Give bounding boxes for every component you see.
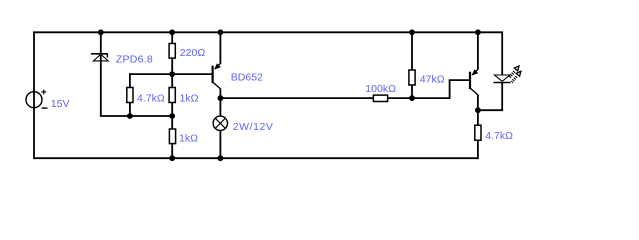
- wire Q1 collector vertical: [219, 89, 221, 116]
- wire 4.7k bottom vertical: [129, 103, 131, 117]
- resistor 4.7k right: [475, 125, 481, 140]
- svg-text:1kΩ: 1kΩ: [180, 93, 199, 105]
- zener diode ZPD6.8: [91, 54, 108, 61]
- wire mid horizontal collector to 100k: [220, 97, 373, 99]
- wire lamp bottom: [219, 131, 221, 159]
- svg-text:15V: 15V: [51, 98, 70, 110]
- wire base node right to Q1 base: [172, 73, 211, 75]
- wire top rail: [33, 31, 502, 33]
- wire step up to Q2 base: [449, 80, 451, 99]
- wire 100k right to 47k node: [388, 97, 450, 99]
- wire zener bottom horizontal: [100, 115, 172, 117]
- svg-text:2W/12V: 2W/12V: [233, 121, 274, 133]
- wire 1k(a) bottom to node: [171, 103, 173, 130]
- svg-text:ZPD6.8: ZPD6.8: [116, 53, 153, 65]
- resistor 1k lower: [169, 129, 175, 144]
- LED arrow 1: [510, 71, 515, 77]
- svg-text:4.7kΩ: 4.7kΩ: [485, 130, 513, 142]
- wire 1k(b) bottom to rail: [171, 144, 173, 159]
- svg-text:47kΩ: 47kΩ: [420, 74, 445, 86]
- resistor 100k: [373, 95, 387, 101]
- resistor 1k upper: [169, 88, 175, 103]
- wire Q2 emitter vertical: [477, 32, 479, 69]
- resistor 47k: [409, 70, 415, 85]
- wire LED node horizontal: [478, 109, 503, 111]
- wire Q2 base horizontal: [449, 79, 469, 81]
- svg-text:1kΩ: 1kΩ: [179, 133, 198, 145]
- wire 1k(a) top: [171, 74, 173, 87]
- transistor Q1 BD652: [212, 63, 222, 90]
- lamp 2W/12V: [213, 116, 227, 130]
- resistor 4.7k left: [127, 88, 133, 103]
- resistor 220: [169, 44, 175, 59]
- wire 4.7k top vertical: [129, 73, 131, 87]
- voltage source V1: [26, 90, 48, 109]
- wire Q1 emitter vertical: [219, 32, 221, 63]
- svg-text:100kΩ: 100kΩ: [365, 83, 396, 95]
- wire 47k vertical bottom: [411, 85, 413, 98]
- wire 220 to base node: [171, 58, 173, 74]
- wire zener branch vertical: [100, 32, 102, 116]
- transistor Q2: [469, 69, 479, 96]
- wire left vertical: [33, 32, 35, 159]
- LED D2: [494, 66, 521, 83]
- wire LED cathode vertical: [501, 83, 503, 111]
- wire Q2 collector vertical: [477, 95, 479, 110]
- wire 4.7k right bottom: [477, 140, 479, 159]
- wire 4.7k right top: [477, 110, 479, 125]
- wire 47k vertical top: [411, 32, 413, 70]
- svg-text:4.7kΩ: 4.7kΩ: [137, 93, 165, 105]
- wire 220 branch vertical top: [171, 32, 173, 43]
- wire bottom rail: [33, 157, 478, 159]
- svg-text:220Ω: 220Ω: [180, 47, 206, 59]
- wire LED anode vertical: [501, 31, 503, 74]
- svg-text:BD652: BD652: [231, 72, 263, 84]
- wire base node left to 4.7k corner: [130, 73, 173, 75]
- LED arrow 2: [512, 76, 517, 82]
